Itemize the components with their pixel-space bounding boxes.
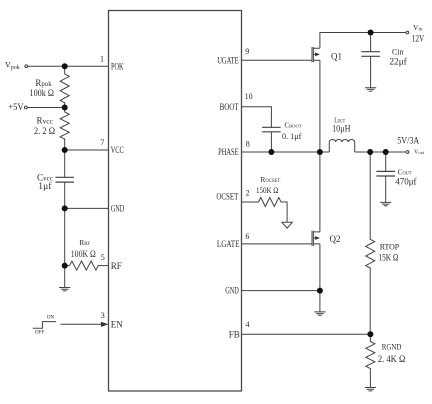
svg-text:0. 1μf: 0. 1μf	[282, 132, 302, 141]
svg-text:UGATE: UGATE	[217, 55, 239, 65]
svg-text:9: 9	[245, 47, 249, 56]
svg-text:RGND: RGND	[382, 343, 402, 352]
svg-text:10μH: 10μH	[332, 123, 351, 133]
svg-text:POK: POK	[111, 61, 124, 71]
svg-text:CBOOT: CBOOT	[285, 123, 302, 130]
svg-text:150K Ω: 150K Ω	[256, 185, 279, 195]
svg-text:3: 3	[101, 311, 105, 320]
svg-text:PHASE: PHASE	[218, 147, 239, 157]
svg-text:VCC: VCC	[111, 145, 124, 155]
svg-text:1: 1	[100, 54, 104, 63]
svg-text:ON: ON	[47, 315, 55, 321]
svg-text:Vout: Vout	[414, 150, 425, 156]
svg-text:Q2: Q2	[330, 234, 341, 244]
svg-text:1μf: 1μf	[38, 181, 51, 191]
svg-text:Q1: Q1	[331, 51, 342, 61]
svg-text:GND: GND	[225, 285, 239, 295]
svg-text:470μf: 470μf	[395, 177, 416, 187]
svg-text:+5V: +5V	[8, 102, 24, 112]
svg-text:FB: FB	[229, 329, 240, 339]
svg-text:RTOP: RTOP	[380, 243, 400, 252]
svg-text:BOOT: BOOT	[220, 102, 239, 112]
svg-text:Rvcc: Rvcc	[37, 116, 54, 126]
svg-text:RF: RF	[111, 261, 122, 271]
svg-text:12V: 12V	[412, 33, 425, 43]
svg-text:100K Ω: 100K Ω	[71, 249, 96, 259]
svg-text:4: 4	[246, 320, 250, 329]
svg-text:100k Ω: 100k Ω	[30, 88, 55, 98]
svg-text:15K Ω: 15K Ω	[378, 253, 398, 263]
svg-text:EN: EN	[111, 319, 123, 329]
svg-text:OCSET: OCSET	[216, 191, 238, 201]
svg-text:Cin: Cin	[392, 46, 404, 56]
svg-text:5V/3A: 5V/3A	[397, 135, 420, 145]
svg-text:6: 6	[245, 232, 249, 241]
svg-text:22μf: 22μf	[389, 56, 406, 66]
svg-text:2. 4K Ω: 2. 4K Ω	[378, 354, 406, 364]
svg-text:LGATE: LGATE	[217, 239, 240, 249]
svg-text:7: 7	[100, 138, 104, 147]
svg-text:OFF: OFF	[35, 329, 45, 335]
svg-text:2. 2 Ω: 2. 2 Ω	[34, 126, 55, 136]
svg-text:5: 5	[101, 253, 105, 262]
svg-text:GND: GND	[111, 204, 125, 214]
svg-text:2: 2	[246, 188, 250, 197]
svg-text:8: 8	[246, 139, 250, 148]
svg-text:10: 10	[245, 92, 253, 101]
